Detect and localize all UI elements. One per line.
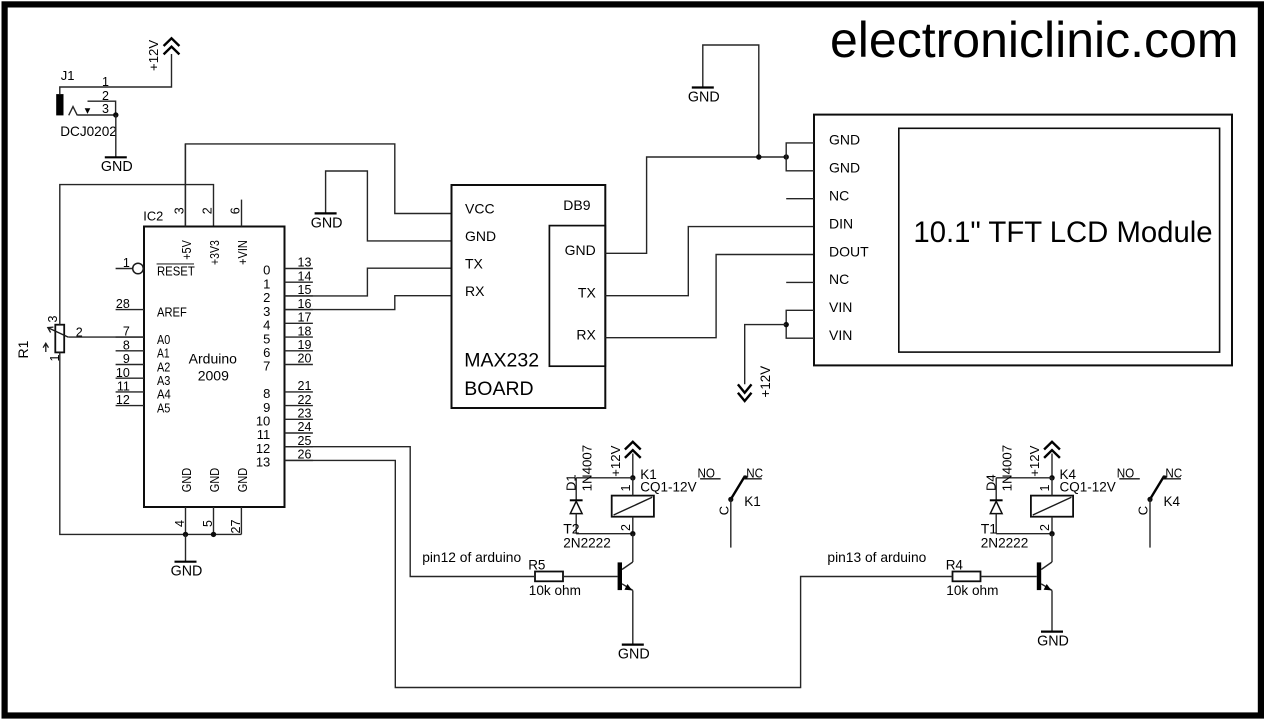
wire diode anode to K4 pin2 node <box>996 533 1052 535</box>
junction LCD GND bracket <box>784 154 789 159</box>
wire diode D1 to +12V node <box>576 477 633 479</box>
svg-text:1N4007: 1N4007 <box>580 445 595 492</box>
relay contact K1 (NO) <box>698 465 721 480</box>
svg-text:9: 9 <box>123 352 130 366</box>
connector J1 DCJ0202 <box>56 68 117 139</box>
svg-text:CQ1-12V: CQ1-12V <box>1060 479 1116 494</box>
svg-text:10: 10 <box>116 366 130 380</box>
J1 pin 2 <box>85 89 116 115</box>
svg-text:A3: A3 <box>157 374 170 388</box>
svg-text:RX: RX <box>465 283 485 299</box>
potentiometer R1 <box>15 325 68 359</box>
svg-text:pin12 of arduino: pin12 of arduino <box>422 550 521 565</box>
svg-text:23: 23 <box>298 407 312 421</box>
svg-text:Arduino: Arduino <box>189 351 237 367</box>
svg-text:GND: GND <box>688 89 720 105</box>
wire R1 wiper to A0 <box>68 336 144 338</box>
IC2 pin 14 (digital 1) <box>263 269 313 291</box>
wire emitter to ground <box>1051 590 1053 631</box>
IC2 pin 16 (digital 3) <box>263 297 313 319</box>
IC2 pin 18 (digital 5) <box>263 324 313 346</box>
junction J1 pin2/pin3 <box>113 112 118 117</box>
svg-text:R5: R5 <box>528 557 545 572</box>
diode D4 1N4007 <box>983 445 1014 534</box>
IC2 pin 3 (+5V) <box>172 144 193 260</box>
svg-text:26: 26 <box>298 448 312 462</box>
relay contact K4 common C <box>1136 499 1151 547</box>
ground GND (J1) <box>101 157 133 175</box>
junction K1 pin2 / collector <box>630 531 635 536</box>
wire +5V to MAX232 VCC <box>185 144 451 227</box>
svg-text:A1: A1 <box>157 347 170 361</box>
svg-text:11: 11 <box>117 379 130 393</box>
J1 pin 3 <box>77 102 116 116</box>
K4 coil pin 1 <box>1038 478 1052 496</box>
svg-text:21: 21 <box>298 379 312 393</box>
svg-text:GND: GND <box>1037 634 1069 650</box>
svg-text:4: 4 <box>173 520 187 527</box>
svg-text:10.1" TFT LCD Module: 10.1" TFT LCD Module <box>913 216 1212 249</box>
svg-text:1: 1 <box>1038 485 1052 492</box>
svg-text:DCJ0202: DCJ0202 <box>60 124 117 139</box>
relay contact K1 common C <box>716 499 731 547</box>
svg-text:18: 18 <box>298 324 312 338</box>
svg-text:19: 19 <box>298 338 312 352</box>
wire J1 pin1 to +12V <box>60 54 172 94</box>
wire DB9 GND to LCD GND <box>605 157 786 253</box>
wire diode D4 to +12V node <box>996 477 1052 479</box>
IC2 pin 21 (digital 8) <box>263 379 313 401</box>
svg-text:GND: GND <box>618 647 650 663</box>
wire R5 to base <box>563 576 618 578</box>
IC2 pin 20 (digital 7) <box>263 352 313 374</box>
IC2 pin 2 (+3V3) <box>201 207 222 265</box>
svg-text:17: 17 <box>298 311 312 325</box>
svg-text:2: 2 <box>201 207 215 214</box>
IC2 pin 1 (RESET) <box>116 256 196 278</box>
LCD GND pins bracket <box>786 143 814 171</box>
wire DB9 RX to LCD DOUT <box>605 255 814 338</box>
relay coil K4 CQ1-12V <box>1031 467 1116 517</box>
relay contact K1 arm <box>731 476 745 499</box>
svg-text:GND: GND <box>465 228 496 244</box>
IC2 pin 23 (digital 10) <box>256 407 313 429</box>
svg-text:1: 1 <box>619 485 633 492</box>
svg-text:TX: TX <box>465 256 484 272</box>
svg-text:TX: TX <box>578 285 597 301</box>
relay contact K4 (NO) <box>1117 465 1140 480</box>
svg-text:GND: GND <box>171 564 203 580</box>
wire J1 pin3 to GND <box>115 115 117 157</box>
supply +12V (J1) <box>146 38 179 71</box>
transistor T2 2N2222 <box>563 521 633 591</box>
svg-text:electroniclinic.com: electroniclinic.com <box>830 12 1238 68</box>
LCD VIN pins bracket <box>786 310 814 338</box>
svg-text:GND: GND <box>208 468 222 492</box>
resistor R4 10k <box>946 557 999 598</box>
svg-text:25: 25 <box>298 434 312 448</box>
junction K4 pin2 / collector <box>1049 531 1054 536</box>
svg-text:C: C <box>1136 506 1151 515</box>
svg-text:GND: GND <box>236 468 250 492</box>
wire arduino D2 to MAX232 TX <box>285 268 452 296</box>
svg-text:3: 3 <box>102 102 109 116</box>
svg-text:RESET: RESET <box>157 264 195 278</box>
svg-text:IC2: IC2 <box>143 209 163 224</box>
svg-text:J1: J1 <box>61 68 75 83</box>
svg-text:VIN: VIN <box>829 327 852 343</box>
wire arduino D3 to MAX232 RX <box>285 296 452 310</box>
svg-text:3: 3 <box>46 316 60 323</box>
junction K1 pin1 node <box>630 475 635 480</box>
IC2 pin 7 (A0) <box>116 325 171 347</box>
K1 coil pin 1 <box>619 478 633 496</box>
IC2 pin 4 (GND) <box>173 468 194 535</box>
svg-text:C: C <box>716 506 731 515</box>
IC2 pin 11 (A4) <box>116 379 171 401</box>
svg-text:NC: NC <box>829 271 849 287</box>
svg-text:3: 3 <box>172 207 186 214</box>
svg-text:27: 27 <box>229 520 243 534</box>
junction ground feed <box>756 154 761 159</box>
svg-text:24: 24 <box>298 420 312 434</box>
svg-text:+12V: +12V <box>146 40 161 71</box>
svg-text:R1: R1 <box>15 340 31 358</box>
IC2 pin 13 (digital 0) <box>263 256 313 278</box>
svg-text:R4: R4 <box>946 557 964 572</box>
transistor T1 2N2222 <box>981 521 1052 591</box>
svg-text:+5V: +5V <box>180 240 194 260</box>
svg-text:T2: T2 <box>563 521 580 537</box>
svg-text:D4: D4 <box>983 474 998 491</box>
svg-text:A2: A2 <box>157 360 170 374</box>
svg-text:NC: NC <box>746 465 763 480</box>
svg-text:+VIN: +VIN <box>236 240 250 265</box>
wire R1 top to +3V3 <box>60 185 214 325</box>
wire K4 pin2 to collector <box>1051 534 1053 562</box>
junction GND bus pin4 <box>183 532 188 537</box>
svg-text:K4: K4 <box>1164 494 1181 509</box>
LCD NC stub (3) <box>786 198 814 200</box>
svg-text:8: 8 <box>123 338 130 352</box>
svg-text:+3V3: +3V3 <box>208 240 222 265</box>
IC2 pin 24 (digital 11) <box>257 420 313 442</box>
svg-text:14: 14 <box>298 269 312 283</box>
relay contact K4 arm <box>1150 476 1164 499</box>
diode D1 1N4007 <box>563 445 594 534</box>
IC2 pin 15 (digital 2) <box>263 283 313 305</box>
svg-text:A5: A5 <box>157 401 170 415</box>
svg-text:1N4007: 1N4007 <box>1000 445 1015 492</box>
wire DB9 TX to LCD DIN <box>605 227 814 296</box>
svg-text:MAX232: MAX232 <box>464 349 539 371</box>
svg-text:7: 7 <box>123 325 130 339</box>
resistor R5 10k <box>528 557 581 598</box>
wire K1 pin2 to collector <box>632 534 634 562</box>
svg-text:20: 20 <box>298 352 312 366</box>
IC2 pin 17 (digital 4) <box>263 311 313 333</box>
svg-text:NO: NO <box>698 465 716 480</box>
svg-text:GND: GND <box>829 160 860 176</box>
ground GND (top) <box>703 45 759 157</box>
IC2 pin 6 (+VIN) stub <box>229 200 250 265</box>
svg-text:13: 13 <box>256 455 270 470</box>
IC2 pin 27 (GND) <box>229 468 250 535</box>
svg-text:2N2222: 2N2222 <box>563 536 611 551</box>
ground GND (T2) <box>618 645 650 663</box>
svg-text:15: 15 <box>298 283 312 297</box>
J1 pin 1 <box>102 75 109 89</box>
ground GND (T1) <box>1037 632 1069 650</box>
svg-text:VIN: VIN <box>829 299 852 315</box>
wire arduino D13 to R4 <box>285 460 953 687</box>
svg-text:10k ohm: 10k ohm <box>946 583 998 598</box>
svg-text:6: 6 <box>229 207 243 214</box>
svg-text:22: 22 <box>298 393 312 407</box>
module MAX232 BOARD <box>452 185 606 408</box>
svg-text:GND: GND <box>101 159 133 175</box>
supply +12V (K1 coil) <box>608 442 641 478</box>
ground GND (MAX232) <box>311 213 343 231</box>
svg-text:12: 12 <box>116 393 130 407</box>
module 10.1" TFT LCD <box>814 115 1232 366</box>
wire R1 bottom to GND bus <box>60 352 242 534</box>
IC2 pin 22 (digital 9) <box>263 393 313 415</box>
K4 coil pin 2 <box>1038 517 1052 534</box>
relay coil K1 CQ1-12V <box>612 467 697 517</box>
junction LCD VIN bracket <box>784 322 789 327</box>
wire arduino D12 to R5 <box>285 447 536 577</box>
svg-text:VCC: VCC <box>465 201 495 217</box>
ground GND (arduino) <box>171 562 203 580</box>
IC2 pin 26 (digital 13) <box>256 448 313 470</box>
svg-text:K1: K1 <box>744 494 761 509</box>
svg-text:1: 1 <box>123 256 130 270</box>
svg-text:CQ1-12V: CQ1-12V <box>640 479 696 494</box>
svg-text:DIN: DIN <box>829 215 853 231</box>
svg-text:2: 2 <box>102 89 109 103</box>
IC2 pin 25 (digital 12) <box>256 434 313 456</box>
svg-text:2N2222: 2N2222 <box>981 536 1029 551</box>
junction GND bus pin5 <box>211 532 216 537</box>
K1 coil pin 2 <box>619 517 633 534</box>
junction K4 pin1 node <box>1049 475 1054 480</box>
svg-text:NC: NC <box>1165 465 1182 480</box>
svg-text:5: 5 <box>201 520 215 527</box>
wire emitter to ground <box>632 590 634 644</box>
IC2 pin 19 (digital 6) <box>263 338 313 360</box>
wire diode anode to K1 pin2 node <box>576 533 633 535</box>
svg-text:2: 2 <box>619 524 633 531</box>
wire MAX232 GND to ground <box>326 171 452 241</box>
svg-text:7: 7 <box>263 359 270 374</box>
IC2 pin 5 (GND) <box>201 468 222 535</box>
svg-text:10k ohm: 10k ohm <box>529 583 581 598</box>
wire R4 to base <box>981 576 1037 578</box>
svg-text:2: 2 <box>1038 524 1052 531</box>
wire LCD VIN to +12V <box>745 325 787 385</box>
svg-text:A0: A0 <box>157 333 170 347</box>
svg-text:DB9: DB9 <box>563 197 590 213</box>
svg-text:T1: T1 <box>981 521 998 537</box>
svg-text:AREF: AREF <box>157 305 187 319</box>
svg-text:GND: GND <box>311 215 343 231</box>
svg-text:BOARD: BOARD <box>464 378 533 400</box>
wire GND bus to ground <box>185 534 187 561</box>
IC2 pin 9 (A2) <box>116 352 171 374</box>
svg-text:+12V: +12V <box>608 445 623 476</box>
svg-text:+12V: +12V <box>758 366 773 398</box>
svg-text:RX: RX <box>576 327 596 343</box>
svg-text:NO: NO <box>1117 465 1135 480</box>
svg-text:28: 28 <box>116 297 130 311</box>
svg-text:D1: D1 <box>563 474 578 491</box>
svg-text:2009: 2009 <box>198 368 229 384</box>
IC2 pin 10 (A3) <box>116 366 171 388</box>
supply +12V (K4 coil) <box>1027 442 1060 478</box>
svg-text:GND: GND <box>180 468 194 492</box>
relay contact K1 (NC) <box>743 465 763 480</box>
IC2 pin 12 (A5) <box>116 393 171 415</box>
IC2 pin 28 (AREF) <box>116 297 188 319</box>
svg-text:A4: A4 <box>157 388 171 402</box>
supply +12V (LCD) <box>738 366 773 401</box>
svg-text:pin13 of arduino: pin13 of arduino <box>827 550 926 565</box>
svg-text:16: 16 <box>298 297 312 311</box>
svg-text:+12V: +12V <box>1027 445 1042 476</box>
svg-text:DOUT: DOUT <box>829 243 869 259</box>
LCD NC stub (6) <box>786 281 814 283</box>
svg-text:GND: GND <box>565 242 596 258</box>
relay contact K4 (NC) <box>1162 465 1182 480</box>
svg-text:13: 13 <box>298 256 312 270</box>
arduino IC2 (Arduino 2009) <box>143 209 284 507</box>
svg-text:GND: GND <box>829 132 860 148</box>
IC2 pin 8 (A1) <box>116 338 170 360</box>
svg-text:NC: NC <box>829 188 849 204</box>
